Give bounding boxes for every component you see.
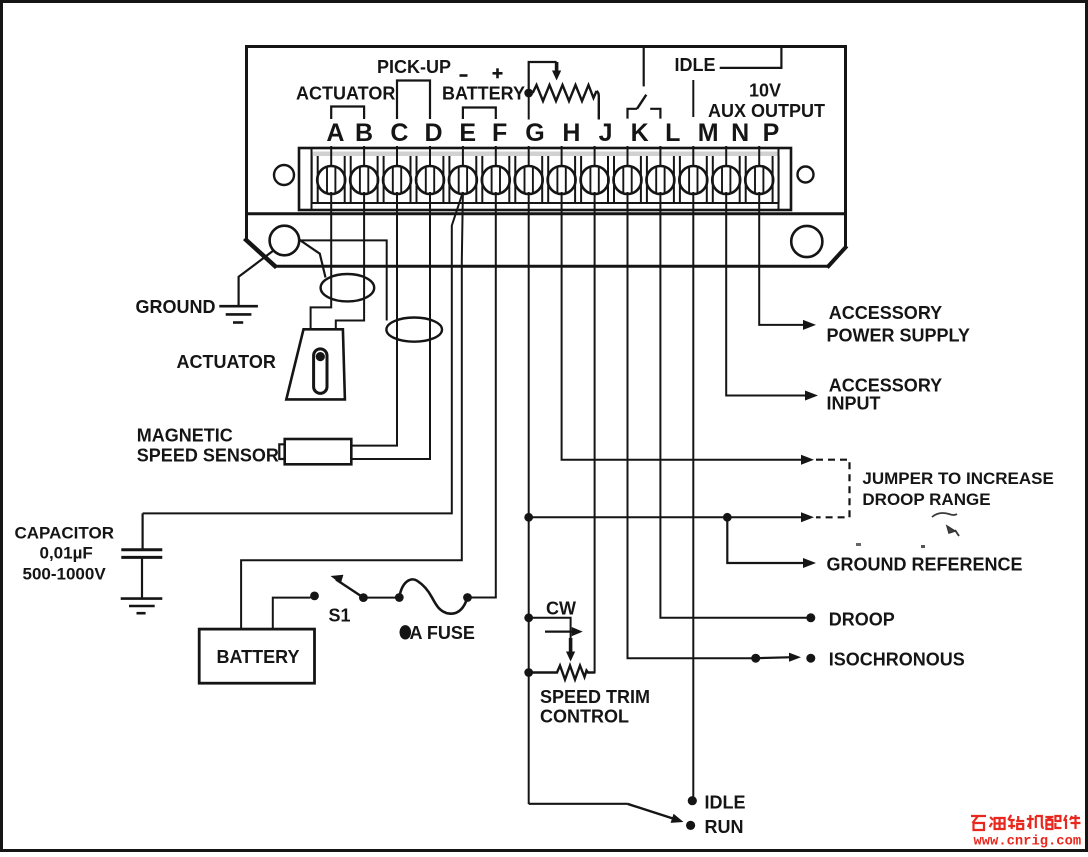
svg-text:N: N — [731, 119, 749, 147]
polarity mark plus (terminal F) — [493, 72, 503, 75]
ground symbol (chassis) — [219, 306, 258, 322]
wire S1 to fuse — [363, 597, 399, 599]
junction dot G / jumper low — [524, 513, 533, 522]
label ACCESSORY INPUT — [827, 375, 943, 413]
potentiometer (droop) across terminals G-H-J — [524, 62, 599, 120]
svg-text:ACCESSORY: ACCESSORY — [829, 375, 942, 395]
terminal E (screw + pin label) — [449, 119, 477, 194]
terminal F (screw + pin label) — [482, 119, 510, 194]
svg-text:L: L — [665, 119, 680, 147]
svg-text:BATTERY: BATTERY — [217, 647, 300, 667]
wire jumper low (from G) — [529, 512, 814, 522]
terminal G (screw + pin label) — [515, 119, 545, 194]
watermark: red Chinese characters (drawn strokes) — [971, 815, 1081, 830]
mounting hole top-right — [798, 167, 814, 183]
wire terminal M down to IDLE contact — [692, 192, 694, 797]
bracket terminals A-B — [331, 107, 364, 120]
svg-text:SPEED TRIM: SPEED TRIM — [540, 687, 650, 707]
wire mounting hole to sensor cable loop — [299, 240, 325, 278]
terminal strip TB1 — [299, 148, 791, 210]
bracket terminals E-F — [463, 108, 496, 120]
idle switch across terminals K-L — [628, 48, 661, 119]
mounting hole top-left — [274, 165, 294, 185]
wire terminal J to speed trim — [594, 192, 596, 674]
polarity mark minus (terminal E) — [460, 74, 468, 77]
cable loop (actuator leads) — [321, 274, 375, 301]
label JUMPER TO INCREASE DROOP RANGE — [862, 469, 1053, 509]
cable loop (sensor leads) — [386, 318, 442, 342]
wire terminal N to accessory input — [726, 192, 818, 401]
terminal C (screw + pin label) — [383, 119, 411, 194]
terminal M (screw + pin label) — [679, 119, 718, 194]
svg-text:DROOP: DROOP — [829, 610, 895, 630]
svg-text:AUX OUTPUT: AUX OUTPUT — [708, 101, 825, 121]
label MAGNETIC SPEED SENSOR — [137, 426, 279, 466]
wire terminal E to battery minus — [241, 192, 463, 629]
svg-text:10V: 10V — [749, 81, 781, 101]
label CAPACITOR 0,01uF 500-1000V — [15, 524, 115, 584]
wire ground reference tap — [727, 517, 816, 568]
svg-text:ISOCHRONOUS: ISOCHRONOUS — [829, 650, 965, 670]
svg-text:H: H — [562, 119, 580, 147]
label SPEED TRIM CONTROL — [540, 687, 650, 727]
svg-text:G: G — [525, 119, 544, 147]
wire terminal K to isochronous contact — [628, 192, 816, 663]
terminal N (screw + pin label) — [712, 119, 749, 194]
svg-text:JUMPER TO INCREASE: JUMPER TO INCREASE — [862, 469, 1053, 488]
run/idle selector arm — [627, 804, 683, 823]
fuse 6A — [395, 579, 472, 613]
svg-text:GROUND REFERENCE: GROUND REFERENCE — [827, 555, 1023, 575]
svg-text:SPEED SENSOR: SPEED SENSOR — [137, 446, 279, 466]
svg-text:0,01µF: 0,01µF — [40, 544, 93, 563]
svg-text:F: F — [492, 119, 507, 147]
ground wire to mounting hole — [239, 251, 274, 307]
terminal H (screw + pin label) — [548, 119, 581, 194]
svg-text:CW: CW — [546, 599, 576, 619]
wire mounting hole across to C/D loop — [299, 240, 387, 320]
wire stub above terminal M — [692, 80, 694, 117]
IDLE contact dot — [688, 796, 697, 805]
wire terminal G down (speed trim bus) — [528, 192, 530, 804]
terminal D (screw + pin label) — [416, 119, 444, 194]
svg-text:PICK-UP: PICK-UP — [377, 57, 451, 77]
svg-text:www.cnrig.com: www.cnrig.com — [974, 834, 1082, 850]
terminal B (screw + pin label) — [350, 119, 378, 194]
svg-text:ACTUATOR: ACTUATOR — [296, 84, 395, 104]
magnetic speed sensor — [279, 439, 351, 464]
svg-text:GROUND: GROUND — [136, 297, 216, 317]
mounting hole bottom-right — [791, 226, 822, 257]
svg-text:A: A — [326, 119, 344, 147]
svg-text:E: E — [459, 119, 476, 147]
wire terminal A to actuator — [311, 192, 332, 330]
svg-text:CAPACITOR: CAPACITOR — [15, 524, 115, 543]
label 10V AUX OUTPUT (terminals N-P) — [708, 81, 825, 122]
svg-text:ACTUATOR: ACTUATOR — [177, 352, 276, 372]
terminal L (screw + pin label) — [646, 119, 680, 194]
bracket terminals C-D — [397, 81, 430, 120]
svg-text:INPUT: INPUT — [827, 394, 881, 414]
label ACCESSORY POWER SUPPLY — [827, 303, 970, 345]
svg-text:S1: S1 — [329, 606, 351, 626]
wire battery plus to switch S1 — [273, 598, 311, 629]
enclosure: speed control unit box — [245, 45, 848, 268]
svg-text:CONTROL: CONTROL — [540, 707, 629, 727]
svg-text:C: C — [390, 119, 408, 147]
svg-text:J: J — [599, 119, 613, 147]
terminal P (screw + pin label) — [745, 119, 779, 194]
wire terminal B to actuator — [336, 192, 364, 330]
svg-text:D: D — [424, 119, 442, 147]
wire terminal L to droop contact — [660, 192, 815, 622]
switch S1 — [310, 575, 368, 602]
svg-text:MAGNETIC: MAGNETIC — [137, 426, 233, 446]
svg-text:DROOP RANGE: DROOP RANGE — [862, 490, 990, 509]
jumper bracket (dashed) — [816, 460, 850, 518]
terminal K (screw + pin label) — [614, 119, 649, 194]
wire terminal E to capacitor — [143, 192, 463, 513]
wire fuse to terminal F — [468, 192, 496, 598]
wire terminal C to sensor — [352, 192, 397, 446]
battery B1 — [199, 629, 314, 683]
label IDLE (top) with leader line — [675, 46, 782, 75]
speed trim control potentiometer — [524, 613, 594, 679]
scan noise specks (near DROOP RANGE) — [856, 513, 959, 548]
svg-text:B: B — [355, 119, 373, 147]
wire terminal D to sensor — [352, 192, 430, 459]
wire terminal H to jumper (droop range high) — [562, 192, 814, 465]
wire run/idle rail — [529, 803, 628, 805]
svg-text:IDLE: IDLE — [675, 55, 716, 75]
terminal A (screw + pin label) — [317, 119, 345, 194]
svg-text:IDLE: IDLE — [705, 793, 746, 813]
svg-text:500-1000V: 500-1000V — [23, 565, 107, 584]
junction dot jumper low / ground reference — [723, 513, 732, 522]
terminal J (screw + pin label) — [581, 119, 613, 194]
svg-text:M: M — [698, 119, 719, 147]
capacitor C1 0,01uF — [121, 513, 162, 597]
svg-text:RUN: RUN — [705, 817, 744, 837]
RUN contact dot — [686, 821, 695, 830]
svg-text:ACCESSORY: ACCESSORY — [829, 303, 942, 323]
mounting hole bottom-left — [270, 226, 300, 256]
svg-text:P: P — [763, 119, 780, 147]
svg-text:K: K — [631, 119, 649, 147]
wire terminal P to accessory power supply — [759, 192, 816, 330]
ground symbol (capacitor) — [121, 599, 163, 614]
svg-text:BATTERY: BATTERY — [442, 84, 525, 104]
actuator symbol — [286, 329, 345, 399]
svg-text:POWER SUPPLY: POWER SUPPLY — [827, 325, 970, 345]
